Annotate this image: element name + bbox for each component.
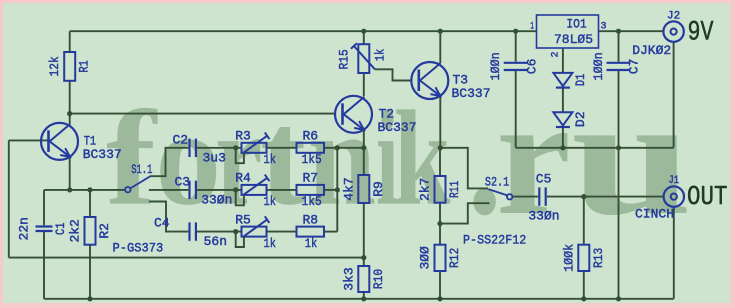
wire C1 bottom lead <box>43 232 45 299</box>
wire R2 bottom lead <box>89 245 91 299</box>
node D2 / ground rail <box>560 145 565 150</box>
capacitor C3 <box>175 175 233 208</box>
transistor T3 <box>411 62 490 101</box>
wire R15 wiper to T3 base <box>375 69 412 80</box>
wire T2 emitter lead <box>363 130 365 148</box>
wire R1 bottom lead to node A <box>69 81 71 114</box>
wire C4 to R5 <box>197 231 242 233</box>
transistor T2 <box>335 96 417 135</box>
svg-text:33Øn: 33Øn <box>528 209 559 224</box>
wire R12 bottom lead <box>439 271 441 299</box>
wire bottom ground rail <box>44 298 674 300</box>
svg-text:R8: R8 <box>303 212 319 227</box>
svg-text:C7: C7 <box>627 59 642 75</box>
node R2 / ground <box>87 296 92 301</box>
node row1 / bus <box>335 145 340 150</box>
svg-text:12k: 12k <box>47 56 62 76</box>
svg-text:D2: D2 <box>573 112 588 128</box>
node top rail / T3 collector <box>438 29 443 34</box>
wire rows bus vertical <box>336 148 338 232</box>
wire R5 to R8 <box>267 231 297 233</box>
svg-text:C1: C1 <box>53 222 68 235</box>
node R10 / ground <box>361 296 366 301</box>
wire IO1 pin3 to J2 tip <box>599 30 664 32</box>
wire R6 to T2 emitter node <box>324 147 364 149</box>
capacitor C1 <box>17 217 69 240</box>
svg-text:R15: R15 <box>337 49 352 69</box>
wire R1 top lead <box>69 31 71 52</box>
svg-text:1: 1 <box>530 22 534 33</box>
svg-text:R7: R7 <box>303 171 319 186</box>
wire R7 to bus <box>324 189 337 191</box>
svg-text:1ØØn: 1ØØn <box>591 52 606 80</box>
wire C2 to R3 <box>197 147 242 149</box>
resistor R13 <box>561 244 606 272</box>
svg-text:1k5: 1k5 <box>302 152 322 167</box>
svg-text:C2: C2 <box>173 133 189 148</box>
svg-text:1k: 1k <box>264 194 277 209</box>
wire S1.1 throw2 stub to C3 <box>149 189 189 191</box>
svg-text:k: k <box>394 84 451 234</box>
resistor R1 <box>47 52 91 81</box>
svg-text:22n: 22n <box>17 217 32 240</box>
svg-text:1k: 1k <box>305 236 318 251</box>
wire T2 collector lead to R15 <box>363 73 365 96</box>
capacitor C6 <box>488 52 540 80</box>
wire T1 emitter node horizontal <box>44 189 125 191</box>
wire upper ground rail <box>516 147 674 149</box>
svg-text:1k: 1k <box>264 152 277 167</box>
svg-text:S2.1: S2.1 <box>485 175 509 190</box>
svg-text:D1: D1 <box>573 73 588 86</box>
wire wiper bracket of trimmer resistor R5 <box>236 232 244 247</box>
diode D1 <box>553 73 588 88</box>
wire R12 top lead <box>439 224 441 245</box>
svg-text:R6: R6 <box>303 129 319 144</box>
resistor R7 <box>297 171 325 209</box>
wire R4 to R7 <box>267 189 297 191</box>
wire T1 emitter lead <box>69 157 71 190</box>
node row1 C2/R3 wiper <box>233 145 238 150</box>
resistor R9 <box>341 175 386 203</box>
svg-text:1k: 1k <box>264 236 277 251</box>
wire C7 top lead <box>618 31 620 62</box>
svg-text:3k3: 3k3 <box>341 267 356 290</box>
wire R9 top lead <box>363 148 365 175</box>
wire S1.1 throw1 to C2 <box>150 148 188 176</box>
wire C5 to J1 tip <box>547 196 664 198</box>
svg-text:P-GS373: P-GS373 <box>113 241 164 256</box>
node C7 / ground rail <box>616 145 621 150</box>
wire J2 sleeve down <box>673 42 675 148</box>
wire S2.1 throw2 stub <box>440 203 490 223</box>
svg-text:C5: C5 <box>536 172 552 187</box>
wire wiper bracket of trimmer resistor R4 <box>236 190 244 205</box>
svg-text:R2: R2 <box>97 223 112 239</box>
svg-text:2k7: 2k7 <box>418 178 433 201</box>
wire R3 to R6 <box>267 147 297 149</box>
node R11 / R12 / S2.1 throw2 <box>437 221 442 226</box>
trimmer resistor R3 <box>235 129 276 167</box>
wire C6 bottom lead <box>515 71 517 148</box>
svg-text:CINCH: CINCH <box>635 207 674 222</box>
svg-text:R12: R12 <box>447 248 462 268</box>
wire R15 top lead <box>363 31 365 44</box>
svg-text:S1.1: S1.1 <box>131 162 152 177</box>
node IO1 pin3 / C7 <box>616 29 621 34</box>
wire S2.1 pole to C5 <box>512 196 538 198</box>
svg-text:78LØ5: 78LØ5 <box>554 32 593 47</box>
svg-text:33Øn: 33Øn <box>201 193 232 208</box>
wire R9 bottom lead <box>363 203 365 258</box>
svg-text:R3: R3 <box>235 129 251 144</box>
wire R13 bottom lead <box>583 271 585 299</box>
node R2 top <box>87 187 92 192</box>
resistor R8 <box>297 212 325 250</box>
svg-text:C3: C3 <box>175 175 191 190</box>
svg-text:1ØØn: 1ØØn <box>488 52 503 80</box>
wire C7 ground to bottom rail <box>618 148 620 299</box>
node T1 emitter <box>67 187 72 192</box>
svg-text:2: 2 <box>551 51 562 57</box>
node row2 C3/R4 wiper <box>233 187 238 192</box>
svg-text:P-SS22F12: P-SS22F12 <box>463 233 526 248</box>
wire R8 to bus <box>324 231 337 233</box>
wire C3 to R4 <box>197 189 242 191</box>
node row2 / bus <box>335 187 340 192</box>
regulator U1 78L05 (IO1) <box>537 15 599 48</box>
svg-text:R5: R5 <box>235 212 251 227</box>
svg-text:BC337: BC337 <box>83 147 122 162</box>
node C7-gnd / bottom rail <box>616 296 621 301</box>
connector J1 <box>664 175 684 207</box>
svg-text:R1: R1 <box>77 60 92 73</box>
resistor R11 <box>418 176 463 203</box>
svg-text:1ØØk: 1ØØk <box>561 244 576 272</box>
trimmer resistor R15 <box>337 43 388 73</box>
svg-text:R13: R13 <box>591 248 606 268</box>
svg-text:DJKØ2: DJKØ2 <box>632 43 671 58</box>
node row3 C4/R5 wiper <box>233 229 238 234</box>
diode D2 <box>553 112 588 128</box>
svg-text:C6: C6 <box>525 59 540 75</box>
svg-text:BC337: BC337 <box>378 120 417 135</box>
node R9 / R10 / feedback <box>361 255 366 260</box>
wire C7 bottom lead <box>618 71 620 148</box>
node top rail / R15 <box>361 29 366 34</box>
wire D1 to D2 <box>562 88 564 112</box>
capacitor C7 <box>591 52 642 80</box>
wire top supply rail <box>70 30 537 32</box>
resistor R2 <box>68 217 113 245</box>
svg-text:3: 3 <box>601 22 607 33</box>
resistor R12 <box>418 245 463 271</box>
wire node A to T2 base <box>70 113 336 115</box>
node R12 / ground <box>437 296 442 301</box>
node row1 / T2 emitter / R9 <box>361 145 366 150</box>
svg-text:3ØØ: 3ØØ <box>418 246 433 270</box>
svg-text:1k5: 1k5 <box>302 194 322 209</box>
wire R10 top lead <box>363 258 365 266</box>
trimmer resistor R5 <box>235 212 276 250</box>
wire D2 bottom lead <box>562 128 564 148</box>
wire R11 bottom lead <box>439 203 441 224</box>
svg-text:J2: J2 <box>667 10 680 22</box>
svg-text:R9: R9 <box>371 181 386 197</box>
wire R11 top lead <box>439 148 441 176</box>
svg-text:R4: R4 <box>235 171 251 186</box>
wire C1 top lead <box>43 190 45 225</box>
svg-text:C4: C4 <box>154 215 170 230</box>
resistor R6 <box>297 129 325 167</box>
node C5 / R13 / J1 tip <box>581 194 586 199</box>
svg-text:56n: 56n <box>204 234 227 249</box>
svg-text:2k2: 2k2 <box>68 219 83 242</box>
svg-text:4k7: 4k7 <box>341 177 356 200</box>
node R13 / ground <box>581 296 586 301</box>
svg-text:9V: 9V <box>688 17 714 48</box>
wire T3 collector lead <box>439 31 441 63</box>
switch S1.1 <box>125 162 152 193</box>
svg-text:OUT: OUT <box>687 182 728 212</box>
capacitor C2 <box>173 133 226 166</box>
svg-text:BC337: BC337 <box>452 86 491 101</box>
wire R2 top lead <box>89 190 91 217</box>
wire T3 emitter node to S2.1 throw1 <box>440 148 488 189</box>
switch S2.1 <box>485 175 513 200</box>
node top rail / C6 <box>513 29 518 34</box>
resistor R10 <box>341 266 386 292</box>
svg-text:3u3: 3u3 <box>203 150 226 165</box>
wire left feedback vertical <box>8 140 10 257</box>
wire T1 collector lead <box>69 114 71 124</box>
transistor T1 <box>41 123 122 162</box>
trimmer resistor R4 <box>235 171 276 209</box>
node T3 emitter / R11 / S2.1 <box>438 145 443 150</box>
capacitor C4 <box>154 215 227 249</box>
wire R10 bottom lead <box>363 292 365 299</box>
wire R13 top lead <box>583 197 585 245</box>
svg-text:R11: R11 <box>447 181 462 198</box>
svg-text:R10: R10 <box>371 269 386 289</box>
wire feedback horizontal to R9/R10 node <box>9 257 364 259</box>
wire J1 sleeve down <box>673 207 675 299</box>
wire IO1 pin2 lead <box>562 48 564 73</box>
wire wiper bracket of trimmer resistor R3 <box>236 148 244 163</box>
wire T1 base lead <box>9 139 49 141</box>
wire C6 top lead <box>515 31 517 62</box>
capacitor C5 <box>528 172 559 224</box>
svg-text:IO1: IO1 <box>566 17 586 32</box>
wire T3 emitter lead <box>439 96 441 148</box>
wire S1.1 throw3 to C4 <box>149 202 189 232</box>
connector J2 <box>663 10 683 42</box>
svg-text:J1: J1 <box>669 175 680 187</box>
svg-text:1k: 1k <box>372 49 387 62</box>
node A: R1 / T1 collector / T2 base <box>67 111 72 116</box>
